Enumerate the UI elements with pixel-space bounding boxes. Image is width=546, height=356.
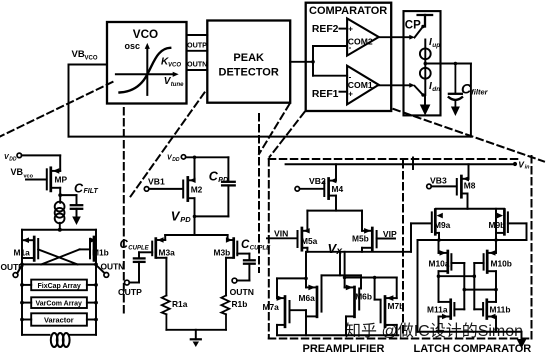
node MP drain junction xyxy=(58,193,62,197)
wire input split vertical xyxy=(312,46,314,76)
svg-text:OUTN: OUTN xyxy=(230,287,254,297)
label VB_vco (left detail) xyxy=(11,167,34,179)
svg-text:Varactor: Varactor xyxy=(44,316,74,325)
wire to COM1 upper input xyxy=(313,75,347,77)
node array stub junctions xyxy=(20,263,98,322)
svg-text:C: C xyxy=(241,239,250,251)
wire OUTN bus bottom xyxy=(187,69,208,71)
node rung junctions xyxy=(437,274,498,291)
svg-text:REF1: REF1 xyxy=(312,89,339,100)
block FixCap Array xyxy=(22,280,96,291)
wire down to M2 drain xyxy=(194,157,196,180)
node W1 junctions xyxy=(437,238,441,242)
terminal OUTN (left detail) xyxy=(96,265,109,277)
wire M6 gate bridge xyxy=(322,252,362,291)
capacitor C_FILT xyxy=(60,195,82,216)
svg-text:M4: M4 xyxy=(332,184,344,194)
svg-text:VB3: VB3 xyxy=(430,176,447,186)
svg-text:OUTP: OUTP xyxy=(118,287,142,297)
label C_PD xyxy=(209,169,228,184)
transistor M5b xyxy=(362,228,377,252)
wire feedback bottom horizontal xyxy=(69,136,471,138)
svg-text:OUTP: OUTP xyxy=(187,40,207,49)
svg-text:C: C xyxy=(120,239,129,251)
current source Idn xyxy=(420,68,431,79)
svg-text:M9a: M9a xyxy=(434,220,451,230)
transistor M10a xyxy=(439,240,465,302)
dashed cone comparator right xyxy=(394,109,545,162)
wire COM1 output to CP xyxy=(379,83,415,88)
svg-text:osc: osc xyxy=(125,41,141,51)
wire VB1 to M2 gate xyxy=(149,188,183,190)
wire tank right column xyxy=(95,230,97,335)
wire cross-couple vertical V1 xyxy=(463,263,465,309)
label V_DD (left) xyxy=(4,154,17,162)
wire to CP ground xyxy=(424,95,426,105)
svg-text:COMPARATOR: COMPARATOR xyxy=(309,5,387,17)
transistor M4 xyxy=(324,164,336,210)
transistor M5a xyxy=(298,228,310,252)
svg-text:+: + xyxy=(348,24,353,33)
ground latch xyxy=(517,332,527,349)
label V_tune xyxy=(164,76,184,88)
svg-text:filter: filter xyxy=(471,88,488,97)
svg-text:M2: M2 xyxy=(191,184,203,194)
svg-text:R1a: R1a xyxy=(172,299,188,309)
svg-text:FixCap Array: FixCap Array xyxy=(38,283,81,290)
svg-text:dn: dn xyxy=(432,86,440,93)
svg-text:CP: CP xyxy=(405,20,421,32)
node M6b/M7b drain junction xyxy=(343,276,347,280)
svg-text:V: V xyxy=(171,209,181,224)
resistor R1b xyxy=(221,295,229,329)
svg-text:tune: tune xyxy=(171,82,184,88)
node tank top junction xyxy=(58,228,62,232)
svg-text:VCO: VCO xyxy=(133,28,158,41)
svg-text:vco: vco xyxy=(24,173,34,179)
svg-text:M8: M8 xyxy=(464,181,476,191)
svg-text:M5b: M5b xyxy=(352,234,369,244)
wire rail below Idn xyxy=(424,79,426,95)
wire output horizontal rail xyxy=(22,263,96,265)
label C_CUPLE (right) xyxy=(241,239,271,251)
wire V_PD down to M3 rail xyxy=(194,216,196,235)
svg-text:DD: DD xyxy=(9,156,17,162)
svg-text:DD: DD xyxy=(172,157,180,163)
block VarCom Array xyxy=(22,297,96,308)
wire peak detector to comparator xyxy=(290,61,313,63)
svg-text:MP: MP xyxy=(55,175,68,185)
PEAK DETECTOR title xyxy=(219,52,279,79)
svg-text:M11b: M11b xyxy=(490,304,511,314)
transistor M9b xyxy=(496,210,508,235)
dashed box comparator-detail bottom edge xyxy=(269,338,532,340)
wire rail between sources xyxy=(424,59,426,68)
label Iup xyxy=(429,37,440,49)
node M6a/M7a drain junction xyxy=(304,277,308,281)
wire VDD top (middle) xyxy=(186,156,229,158)
ground C_filter xyxy=(451,107,460,117)
wire latch left column xyxy=(417,240,419,332)
node CP output tap xyxy=(424,62,428,66)
VCO graph y-axis xyxy=(145,43,150,95)
svg-text:+: + xyxy=(348,90,353,99)
transistor M11a xyxy=(439,300,465,332)
svg-text:M6a: M6a xyxy=(299,293,316,303)
label K_VCO xyxy=(161,57,181,69)
svg-text:-: - xyxy=(349,43,352,52)
transistor M3b xyxy=(226,235,237,295)
wire Vx rail xyxy=(307,251,411,253)
node input split junction xyxy=(311,60,315,64)
VCO tuning S-curve xyxy=(120,48,171,93)
svg-text:R1b: R1b xyxy=(232,299,248,309)
COMPARATOR block xyxy=(306,3,392,111)
wire tank left column xyxy=(21,230,23,335)
ground CP xyxy=(420,105,431,116)
svg-text:C: C xyxy=(74,181,84,195)
op-amp COM1 xyxy=(347,66,379,105)
svg-text:M1a: M1a xyxy=(14,247,31,257)
wire rail tick xyxy=(412,158,414,170)
svg-text:OUTN: OUTN xyxy=(101,261,125,271)
transistor M1a xyxy=(22,237,38,260)
wire to middle ground xyxy=(195,330,197,340)
op-amp COM2 xyxy=(347,19,379,56)
svg-text:知乎 @做IC设计的Simon: 知乎 @做IC设计的Simon xyxy=(345,322,523,340)
wire CP output xyxy=(425,63,471,65)
svg-text:LATCH COMPARATOR: LATCH COMPARATOR xyxy=(414,343,532,355)
wire rail above Iup xyxy=(424,40,426,49)
terminal OUTP (left detail) xyxy=(13,265,22,277)
label Vx xyxy=(328,241,343,257)
terminal V_DD (left) xyxy=(17,153,22,158)
transistor M8 xyxy=(457,164,469,209)
wire to COM2 lower input xyxy=(313,45,347,47)
svg-text:VarCom Array: VarCom Array xyxy=(36,301,83,308)
label V_DD (middle) xyxy=(167,155,180,163)
wire cross-couple vertical V2 xyxy=(473,263,475,309)
svg-text:M10a: M10a xyxy=(429,258,450,268)
label C_CUPLE (left) xyxy=(120,239,150,251)
wire VB to MP gate xyxy=(26,179,46,181)
label V_PD xyxy=(171,209,192,224)
svg-text:VB: VB xyxy=(11,167,24,177)
dashed edge middle-detail right vertical xyxy=(258,114,260,272)
wire VB3 to M8 gate xyxy=(431,185,456,187)
CP block box xyxy=(404,11,441,115)
svg-text:M7a: M7a xyxy=(263,302,280,312)
supply T bar xyxy=(418,15,433,27)
wire M3 drain rail xyxy=(165,234,227,236)
transistor M3a xyxy=(152,235,166,295)
wire latch bottom rail xyxy=(418,331,522,333)
wire cross rung A xyxy=(439,275,475,277)
inductor L2 bottom xyxy=(51,333,70,347)
wire M9 source rail xyxy=(436,208,504,210)
svg-text:M7b: M7b xyxy=(388,301,405,311)
wire feedback right vertical xyxy=(470,64,472,137)
wire Vx riser to latch input xyxy=(411,223,431,251)
wire cross rung B xyxy=(464,289,496,291)
transistor M6b xyxy=(345,252,360,335)
wire Vin supply rail xyxy=(286,163,515,165)
capacitor C_filter xyxy=(449,64,462,107)
node C_filter tap xyxy=(454,62,458,66)
dashed separator preamp/latch xyxy=(402,161,404,337)
wire feedback left vertical xyxy=(68,65,70,137)
node V_PD junction xyxy=(193,215,197,219)
dashed box comparator-detail left edge xyxy=(268,159,270,339)
terminal VB1 xyxy=(144,187,149,192)
svg-text:DETECTOR: DETECTOR xyxy=(219,67,279,79)
capacitor C_CUPLE right xyxy=(237,254,255,281)
svg-text:VCO: VCO xyxy=(85,55,98,61)
svg-text:C: C xyxy=(209,169,219,183)
wire COM2 output to CP xyxy=(379,35,415,40)
wire OUTP bus top xyxy=(187,34,208,36)
svg-text:M10b: M10b xyxy=(491,258,512,268)
current source Iup xyxy=(420,48,431,59)
wire VIN to M5a gate xyxy=(267,237,298,239)
block Varactor xyxy=(22,313,96,325)
wire V_PD node xyxy=(195,215,229,217)
svg-text:PEAK: PEAK xyxy=(233,52,264,64)
transistor M1b xyxy=(90,237,97,260)
wire REF1 to COM1 xyxy=(340,91,348,93)
switch S_dn contact node xyxy=(421,93,424,96)
transistor M7b xyxy=(345,278,397,336)
PEAK DETECTOR block xyxy=(207,21,290,103)
dashed cone VCO left xyxy=(0,82,113,137)
switch S_up contact node xyxy=(421,25,424,28)
capacitor C_PD xyxy=(222,157,235,216)
node Vin terminal dot xyxy=(513,162,517,166)
svg-text:VB1: VB1 xyxy=(148,177,165,187)
wire feedback into VCO xyxy=(69,64,108,66)
wire REF2 to COM2 xyxy=(340,28,348,30)
svg-text:VCO: VCO xyxy=(168,62,181,68)
node M2 drain tap xyxy=(193,156,197,160)
svg-text:M3a: M3a xyxy=(159,248,176,258)
dashed cone peak-detector left xyxy=(128,93,205,201)
wire peak-detector bottom rail xyxy=(166,329,226,331)
wire bottom right to inductor xyxy=(70,334,97,336)
wire M9b drain column xyxy=(495,209,497,253)
transistor M9a xyxy=(432,210,443,241)
wire OUTP bus mid xyxy=(187,50,208,52)
svg-text:M3b: M3b xyxy=(214,248,231,258)
wire bottom left to inductor xyxy=(22,334,50,336)
transistor M10b xyxy=(474,250,496,302)
wire diff pair top rail xyxy=(307,211,362,231)
svg-text:CUPLE: CUPLE xyxy=(250,245,271,251)
svg-text:VB: VB xyxy=(72,49,85,60)
svg-text:M11a: M11a xyxy=(427,304,448,314)
svg-text:PD: PD xyxy=(180,215,191,224)
transistor M6a xyxy=(306,252,322,335)
svg-text:CUPLE: CUPLE xyxy=(128,245,149,251)
transistor M2 xyxy=(183,177,195,216)
label C_filter xyxy=(461,81,489,97)
wire M9b diode loop xyxy=(508,223,527,240)
wire VB2 to M4 gate xyxy=(300,188,324,190)
wire M5b gate stub xyxy=(377,238,395,240)
svg-text:VIP: VIP xyxy=(383,229,397,239)
terminal VB2 xyxy=(295,187,300,192)
svg-text:M5a: M5a xyxy=(301,236,318,246)
svg-text:FILT: FILT xyxy=(84,188,99,195)
svg-text:M6b: M6b xyxy=(355,292,372,302)
svg-text:VIN: VIN xyxy=(274,229,288,239)
label Idn xyxy=(429,81,440,93)
wire VDD to MP source xyxy=(22,155,61,171)
wire tank top rail xyxy=(22,229,96,231)
svg-text:in: in xyxy=(525,165,531,171)
svg-text:up: up xyxy=(432,42,440,49)
switch S_up arm xyxy=(415,27,424,38)
resistor R1a xyxy=(162,295,170,329)
VCO graph x-axis xyxy=(116,72,179,77)
ground peak detector xyxy=(191,339,201,347)
dashed box comparator-detail top edge xyxy=(269,158,518,160)
switch S_dn arm xyxy=(415,86,424,95)
svg-text:-: - xyxy=(349,73,352,82)
capacitor C_CUPLE left xyxy=(129,252,152,282)
transistor M11b xyxy=(474,300,496,332)
wire latch mid rail W1 xyxy=(418,239,527,241)
label VB_VCO xyxy=(72,49,98,61)
dashed cone peak-detector right xyxy=(259,104,290,154)
transistor MP xyxy=(47,168,60,195)
svg-text:M1b: M1b xyxy=(92,247,109,257)
label V_in xyxy=(518,159,530,170)
inductor L1 top xyxy=(55,195,65,230)
svg-text:OUTN: OUTN xyxy=(187,60,207,69)
terminal VB3 xyxy=(427,184,432,189)
terminal V_DD (middle) xyxy=(181,155,185,159)
dashed box comparator-detail right edge xyxy=(531,156,533,339)
label C_FILT xyxy=(74,181,98,195)
transistor M7a xyxy=(277,278,306,335)
wire cross-couple M1b gate to OUTP side xyxy=(41,249,90,264)
dashed cone comparator left xyxy=(270,112,305,157)
svg-text:COM2: COM2 xyxy=(348,36,373,46)
terminal OUTP (middle) xyxy=(125,280,130,285)
svg-text:REF2: REF2 xyxy=(312,24,339,35)
VCO block U_VCO xyxy=(107,22,187,104)
wire preamp bottom rail xyxy=(277,334,398,336)
terminal OUTN (middle) xyxy=(232,278,237,283)
dashed edge middle-detail left vertical xyxy=(123,108,125,315)
ground C_FILT xyxy=(72,217,81,226)
svg-text:PREAMPLIFIER: PREAMPLIFIER xyxy=(303,343,385,355)
wire cross-couple M1a gate to OUTN side xyxy=(38,249,77,264)
